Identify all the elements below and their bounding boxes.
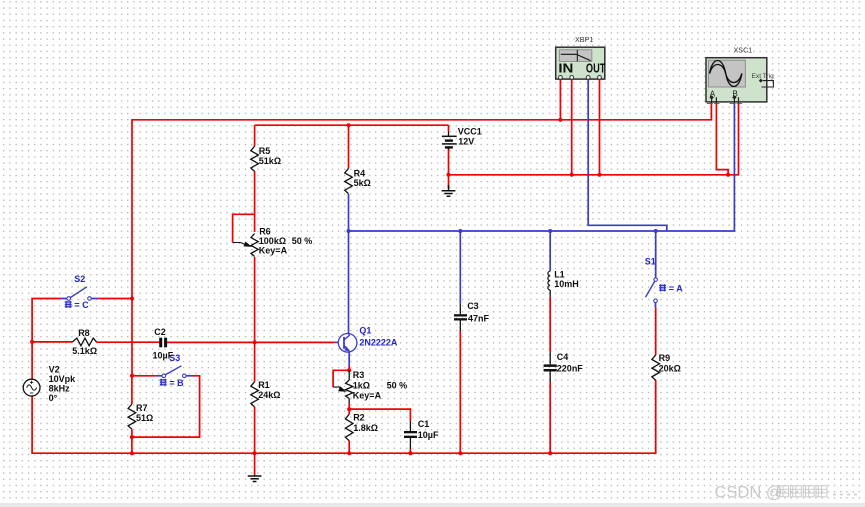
switch S1 bbox=[646, 281, 655, 297]
inductor L1 bbox=[548, 271, 550, 290]
junction bbox=[347, 407, 351, 411]
svg-text:XSC1: XSC1 bbox=[734, 46, 753, 55]
potentiometer R6 bbox=[251, 234, 258, 257]
svg-text:= B: = B bbox=[169, 378, 184, 388]
wire: VCC1 top lead bbox=[448, 125, 450, 131]
wire: S3 left lead bbox=[132, 375, 156, 377]
wire: S3 pin stubs bbox=[156, 375, 193, 377]
wire: R2 bottom lead bbox=[348, 441, 350, 453]
svg-text:Key=A: Key=A bbox=[353, 390, 382, 400]
switch S2 bbox=[70, 287, 87, 298]
XSC1 ext trig pin bbox=[759, 79, 763, 83]
svg-text:5kΩ: 5kΩ bbox=[354, 178, 371, 188]
svg-text:R6: R6 bbox=[259, 226, 271, 236]
svg-text:10µF: 10µF bbox=[418, 430, 439, 440]
svg-text:20kΩ: 20kΩ bbox=[659, 363, 681, 373]
svg-text:0°: 0° bbox=[49, 393, 58, 403]
svg-text:5.1kΩ: 5.1kΩ bbox=[72, 346, 97, 356]
potentiometer R3 bbox=[348, 371, 350, 380]
wire: C1 bottom lead bbox=[409, 449, 411, 454]
junction bbox=[570, 173, 574, 177]
svg-text:47nF: 47nF bbox=[468, 314, 490, 324]
junction bbox=[253, 451, 257, 455]
XSC1 channel pins bbox=[709, 95, 713, 99]
wire: R4 bottom to Q1 collector bbox=[348, 194, 350, 334]
wire: XBP1 IN- lead bbox=[571, 80, 573, 175]
ground below VCC1 bbox=[442, 185, 456, 196]
svg-text:R7: R7 bbox=[136, 403, 148, 413]
wire: S2 right stub bbox=[98, 298, 132, 300]
junction bbox=[347, 451, 351, 455]
wire: S1 top lead bbox=[655, 231, 657, 278]
junction bbox=[458, 229, 462, 233]
wire: C3 bottom lead bbox=[459, 331, 461, 453]
svg-text:1.8kΩ: 1.8kΩ bbox=[353, 423, 378, 433]
wire: ground stub below rail bbox=[254, 453, 256, 475]
wire: R6 bottom lead to base node bbox=[254, 257, 256, 342]
junction bbox=[447, 173, 451, 177]
wire: S3 right lead down to R7 bottom bbox=[132, 376, 200, 437]
svg-text:OUT: OUT bbox=[586, 62, 606, 76]
junction bbox=[408, 451, 412, 455]
wire: L1 to C4 lead bbox=[549, 297, 551, 352]
junction bbox=[130, 297, 134, 301]
svg-text:R9: R9 bbox=[659, 353, 671, 363]
svg-text:50 %: 50 % bbox=[292, 236, 313, 246]
oscilloscope XSC1 bbox=[706, 58, 767, 102]
wire: R3 bottom lead to R2 node bbox=[348, 403, 350, 409]
wire: XBP1 OUT- lead bbox=[599, 80, 601, 175]
transistor Q1 bbox=[338, 334, 357, 353]
wire: S1 bottom lead to R9 bbox=[655, 308, 657, 355]
svg-text:Key=A: Key=A bbox=[259, 245, 288, 255]
source V2 bbox=[23, 379, 40, 396]
junction bbox=[726, 173, 730, 177]
resistor R4 bbox=[345, 168, 353, 193]
svg-text:R2: R2 bbox=[353, 412, 365, 422]
svg-text:10mH: 10mH bbox=[554, 279, 579, 289]
switch S3 bbox=[165, 366, 181, 375]
wire: R2 node to C1 top bbox=[349, 409, 410, 421]
svg-text:CSDN @: CSDN @ bbox=[715, 484, 783, 502]
svg-text:R5: R5 bbox=[259, 146, 271, 156]
capacitor C2 bbox=[159, 338, 162, 348]
wire: XSC1 A- stepped lead bbox=[716, 103, 728, 175]
svg-text:220nF: 220nF bbox=[557, 363, 584, 373]
svg-text:IN: IN bbox=[558, 62, 573, 76]
svg-text:C1: C1 bbox=[418, 419, 430, 429]
wire: Q1 emitter pin down bbox=[348, 351, 350, 366]
wire: XBP1 IN+ lead bbox=[559, 80, 561, 120]
svg-text:50 %: 50 % bbox=[387, 380, 408, 390]
wire: C4 bottom lead bbox=[549, 382, 551, 453]
svg-text:= C: = C bbox=[74, 300, 89, 310]
wire: S2 pin stubs bbox=[60, 298, 98, 300]
wire: blue output rail to XSC1 B+ bbox=[349, 103, 735, 231]
wire: R4 top lead bbox=[348, 125, 350, 168]
wire: C3 top lead bbox=[459, 231, 461, 304]
svg-text:VCC1: VCC1 bbox=[458, 126, 482, 136]
wire: R6 top red lead bbox=[254, 214, 256, 232]
resistor R8 horizontal bbox=[73, 338, 97, 346]
wire: R5 top lead bbox=[254, 125, 256, 146]
resistor R5 bbox=[251, 146, 259, 171]
resistor R9 bbox=[652, 355, 660, 380]
svg-text:C4: C4 bbox=[557, 352, 569, 362]
junction bbox=[130, 451, 134, 455]
svg-text:12V: 12V bbox=[458, 136, 474, 146]
wire: emitter to R3 node bbox=[348, 365, 350, 370]
wire: L1 top lead bbox=[549, 231, 551, 271]
wire: R2 top lead bbox=[348, 409, 350, 414]
junction bbox=[130, 435, 134, 439]
bottom scrollbar strip bbox=[0, 503, 865, 507]
bode plotter XBP1 bbox=[556, 47, 605, 79]
wire: R1 top lead bbox=[254, 342, 256, 381]
junction bbox=[654, 229, 658, 233]
wire: VCC rail R5-R4-VCC1 bbox=[255, 124, 449, 126]
svg-text:XBP1: XBP1 bbox=[575, 35, 593, 44]
label key=C bbox=[65, 301, 72, 308]
junction bbox=[598, 173, 602, 177]
wire: Q1 base pin bbox=[334, 341, 344, 343]
junction bbox=[130, 374, 134, 378]
junction bbox=[347, 229, 351, 233]
svg-text:Ext Trig: Ext Trig bbox=[752, 73, 775, 80]
svg-text:C2: C2 bbox=[154, 327, 166, 337]
capacitor C1 bbox=[409, 421, 411, 431]
svg-text:S3: S3 bbox=[169, 353, 180, 363]
capacitor C4 bbox=[549, 352, 551, 364]
wire: top rail from XSC1 A+ down, across, left column down to S3/R7 node bbox=[132, 102, 711, 376]
junction bbox=[458, 451, 462, 455]
junction bbox=[347, 368, 351, 372]
svg-text:= A: = A bbox=[669, 283, 683, 293]
capacitor C3 bbox=[459, 304, 461, 314]
svg-text:51kΩ: 51kΩ bbox=[259, 156, 281, 166]
junction bbox=[558, 118, 562, 122]
resistor R2 bbox=[345, 414, 353, 441]
label key=A bbox=[659, 284, 666, 291]
resistor R1 bbox=[251, 382, 259, 407]
svg-text:C3: C3 bbox=[467, 301, 479, 311]
wire: VCC1 bottom lead to ground bbox=[448, 148, 450, 188]
label key=B bbox=[160, 379, 167, 386]
wire: R7 bottom lead bbox=[131, 429, 133, 453]
junction bbox=[548, 451, 552, 455]
wire: instrument ground rail to XSC1 B- bbox=[449, 103, 739, 175]
svg-text:Q1: Q1 bbox=[359, 326, 371, 336]
svg-text:S1: S1 bbox=[645, 257, 656, 267]
resistor R7 bbox=[128, 404, 136, 429]
svg-text:R1: R1 bbox=[258, 380, 270, 390]
wire: R6 wiper loop bbox=[233, 214, 255, 242]
wire: V2 bottom lead and bottom ground rail bbox=[32, 380, 656, 453]
svg-text:R8: R8 bbox=[78, 328, 90, 338]
wire: S1 bottom stub bbox=[655, 303, 657, 308]
svg-text:2N2222A: 2N2222A bbox=[359, 337, 398, 347]
wire: V2 top lead bbox=[31, 342, 33, 380]
junction bbox=[30, 340, 34, 344]
wire: R5 bottom lead to R6 bbox=[254, 171, 256, 214]
battery VCC1 bbox=[448, 132, 450, 136]
svg-text:1kΩ: 1kΩ bbox=[353, 380, 370, 390]
svg-text:R4: R4 bbox=[354, 168, 366, 178]
svg-text:S2: S2 bbox=[74, 274, 85, 284]
junction bbox=[347, 123, 351, 127]
svg-text:R3: R3 bbox=[353, 370, 365, 380]
wire: R1 bottom lead to ground rail bbox=[254, 407, 256, 453]
svg-text:51Ω: 51Ω bbox=[136, 413, 153, 423]
wire: XBP1 OUT+ stepped lead bbox=[588, 80, 667, 232]
wire: R8 right lead to C2 bbox=[97, 341, 160, 343]
wire: R7 top lead bbox=[131, 376, 133, 404]
wire: R8 left lead bbox=[32, 341, 72, 343]
wire: base line C2 to Q1 base bbox=[167, 341, 334, 343]
svg-text:L1: L1 bbox=[554, 269, 565, 279]
junction bbox=[253, 340, 257, 344]
wire: S2 left lead and left column to R8 node bbox=[32, 299, 60, 342]
wire: R3 wiper loop bbox=[333, 370, 349, 387]
junction bbox=[548, 229, 552, 233]
ground below bottom rail bbox=[248, 475, 262, 482]
svg-text:24kΩ: 24kΩ bbox=[258, 390, 280, 400]
